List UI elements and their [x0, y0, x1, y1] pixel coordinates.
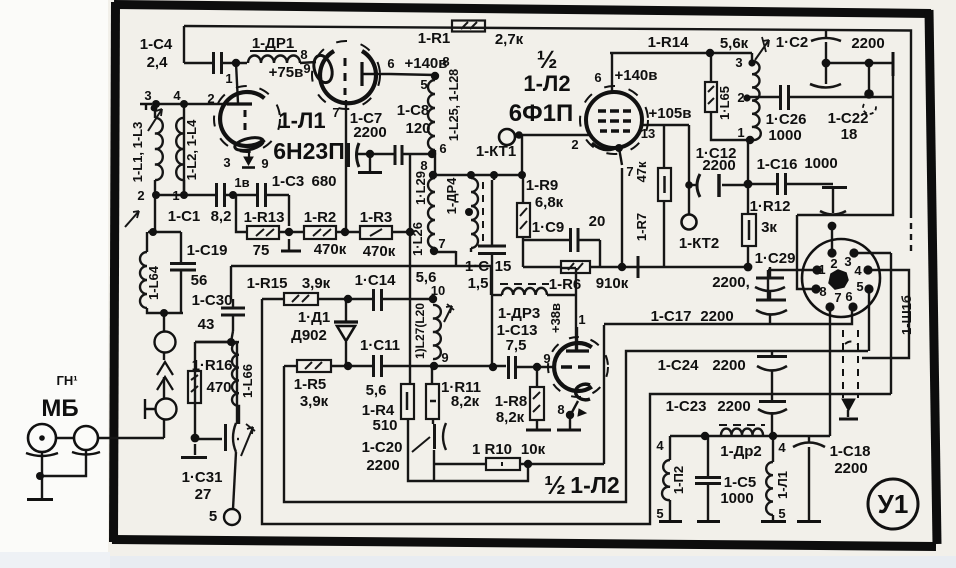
- svg-text:Д902: Д902: [291, 327, 327, 344]
- svg-text:2,7к: 2,7к: [495, 31, 524, 48]
- svg-text:1-R8: 1-R8: [495, 393, 528, 410]
- svg-text:1,5: 1,5: [468, 275, 489, 292]
- svg-text:3к: 3к: [761, 219, 777, 236]
- svg-text:10: 10: [431, 283, 445, 298]
- svg-text:2,4: 2,4: [147, 54, 169, 71]
- svg-text:75: 75: [253, 242, 270, 259]
- svg-text:1-Л1: 1-Л1: [775, 471, 790, 499]
- svg-text:½: ½: [544, 470, 566, 500]
- svg-text:+140в: +140в: [614, 67, 657, 84]
- svg-text:6,8к: 6,8к: [535, 194, 564, 211]
- svg-text:9: 9: [261, 156, 268, 171]
- svg-text:1·С26: 1·С26: [766, 111, 807, 128]
- svg-text:1-С30: 1-С30: [192, 292, 233, 309]
- svg-text:1·Д1: 1·Д1: [298, 309, 330, 326]
- svg-text:1·C: 1·C: [465, 258, 489, 275]
- svg-text:8: 8: [442, 54, 449, 69]
- svg-text:1-R14: 1-R14: [648, 34, 690, 51]
- svg-text:7: 7: [626, 164, 633, 179]
- svg-text:1·С31: 1·С31: [182, 469, 223, 486]
- svg-text:1-Л1: 1-Л1: [278, 108, 325, 133]
- svg-text:1·C11: 1·C11: [360, 337, 400, 354]
- svg-text:5: 5: [778, 506, 785, 521]
- svg-text:1·C14: 1·C14: [355, 272, 397, 289]
- svg-text:ГН¹: ГН¹: [56, 373, 77, 388]
- svg-text:½: ½: [537, 46, 558, 74]
- svg-text:56: 56: [191, 272, 208, 289]
- svg-text:1: 1: [578, 312, 585, 327]
- svg-text:1-C8: 1-C8: [397, 102, 430, 119]
- svg-text:43: 43: [198, 316, 215, 333]
- svg-text:2200,: 2200,: [712, 274, 750, 291]
- svg-text:1-L66: 1-L66: [240, 364, 255, 398]
- svg-text:6: 6: [594, 70, 601, 85]
- svg-text:1: 1: [225, 71, 232, 86]
- svg-text:1)L27(L20: 1)L27(L20: [413, 303, 427, 359]
- svg-text:3,9к: 3,9к: [300, 393, 329, 410]
- svg-text:1-С3: 1-С3: [272, 173, 305, 190]
- svg-text:5,6: 5,6: [366, 382, 387, 399]
- svg-text:1: 1: [172, 188, 179, 203]
- svg-text:1-Др2: 1-Др2: [720, 443, 762, 460]
- svg-text:1-ДР3: 1-ДР3: [498, 305, 540, 322]
- svg-text:6Н23П: 6Н23П: [273, 138, 345, 164]
- svg-text:6: 6: [439, 141, 446, 156]
- svg-text:1-КТ1: 1-КТ1: [476, 143, 516, 160]
- svg-text:1-R13: 1-R13: [244, 209, 285, 226]
- svg-text:470к: 470к: [314, 241, 347, 258]
- svg-text:1-L1, 1-L3: 1-L1, 1-L3: [130, 122, 145, 183]
- svg-text:2200: 2200: [834, 460, 867, 477]
- svg-text:1: 1: [818, 262, 825, 277]
- svg-text:2200: 2200: [700, 308, 733, 325]
- svg-text:2: 2: [737, 90, 744, 105]
- svg-text:1-R15: 1-R15: [247, 275, 288, 292]
- svg-text:4: 4: [173, 88, 181, 103]
- svg-text:1-L64: 1-L64: [146, 265, 161, 300]
- svg-text:4: 4: [778, 440, 786, 455]
- svg-text:1-C1: 1-C1: [168, 208, 201, 225]
- svg-text:1-R7: 1-R7: [634, 213, 649, 241]
- svg-text:1000: 1000: [720, 490, 753, 507]
- svg-text:1-R1: 1-R1: [418, 30, 451, 47]
- svg-text:8: 8: [819, 284, 826, 299]
- svg-text:9: 9: [543, 351, 550, 366]
- svg-text:1-R9: 1-R9: [526, 177, 559, 194]
- svg-text:8: 8: [300, 47, 307, 62]
- svg-text:8,2к: 8,2к: [496, 409, 525, 426]
- svg-text:1: 1: [737, 125, 744, 140]
- svg-text:8,2: 8,2: [211, 208, 232, 225]
- svg-text:1-С16: 1-С16: [757, 156, 798, 173]
- svg-text:5: 5: [656, 506, 663, 521]
- svg-text:20: 20: [589, 213, 606, 230]
- svg-text:1-R5: 1-R5: [294, 376, 327, 393]
- svg-text:6: 6: [845, 289, 852, 304]
- svg-text:18: 18: [841, 126, 858, 143]
- svg-text:1-R2: 1-R2: [304, 209, 337, 226]
- svg-text:910к: 910к: [596, 275, 629, 292]
- svg-text:5: 5: [420, 77, 427, 92]
- svg-text:9: 9: [303, 61, 310, 76]
- svg-text:6Ф1П: 6Ф1П: [509, 100, 573, 127]
- svg-text:1-С24: 1-С24: [658, 357, 700, 374]
- svg-text:1-L2, 1-L4: 1-L2, 1-L4: [184, 119, 199, 180]
- svg-text:3,9к: 3,9к: [302, 275, 331, 292]
- svg-text:7: 7: [834, 290, 841, 305]
- svg-text:МБ: МБ: [41, 395, 78, 422]
- svg-text:120: 120: [405, 120, 430, 137]
- svg-text:1-R6: 1-R6: [549, 276, 582, 293]
- svg-text:8: 8: [420, 158, 427, 173]
- svg-text:1-С22: 1-С22: [828, 110, 869, 127]
- svg-text:13: 13: [641, 126, 655, 141]
- svg-text:1-ДР1: 1-ДР1: [252, 35, 294, 52]
- svg-text:1·C9: 1·C9: [532, 219, 565, 236]
- svg-text:1-С23: 1-С23: [666, 398, 707, 415]
- svg-text:2200: 2200: [717, 398, 750, 415]
- svg-text:3: 3: [223, 155, 230, 170]
- svg-text:1-ДР4: 1-ДР4: [444, 177, 459, 214]
- svg-text:4: 4: [854, 263, 862, 278]
- svg-text:27: 27: [195, 486, 212, 503]
- svg-text:3: 3: [844, 254, 851, 269]
- svg-text:2200: 2200: [712, 357, 745, 374]
- svg-text:1·C2: 1·C2: [776, 34, 809, 51]
- svg-text:8: 8: [557, 402, 564, 417]
- svg-text:1-R3: 1-R3: [360, 209, 393, 226]
- svg-text:1-C20: 1-C20: [362, 439, 403, 456]
- svg-text:10к: 10к: [521, 441, 546, 458]
- svg-text:15: 15: [495, 258, 512, 275]
- svg-text:1 R10: 1 R10: [472, 441, 512, 458]
- svg-text:5: 5: [856, 279, 863, 294]
- svg-text:1-С5: 1-С5: [724, 474, 757, 491]
- svg-text:4: 4: [656, 438, 664, 453]
- svg-text:680: 680: [311, 173, 336, 190]
- svg-text:2: 2: [830, 256, 837, 271]
- svg-text:1-С18: 1-С18: [830, 443, 871, 460]
- svg-text:5,6к: 5,6к: [720, 35, 749, 52]
- svg-text:1·L29: 1·L29: [413, 171, 428, 205]
- svg-text:+140в: +140в: [404, 55, 447, 72]
- svg-text:1·R16: 1·R16: [192, 357, 233, 374]
- svg-text:510: 510: [372, 417, 397, 434]
- svg-text:3: 3: [144, 88, 151, 103]
- svg-text:7: 7: [332, 105, 339, 120]
- svg-text:2200: 2200: [702, 157, 735, 174]
- svg-text:2200: 2200: [851, 35, 884, 52]
- svg-text:У1: У1: [878, 489, 909, 519]
- svg-text:2200: 2200: [366, 457, 399, 474]
- svg-text:+38в: +38в: [548, 303, 563, 333]
- svg-text:1в: 1в: [234, 175, 249, 190]
- svg-text:1000: 1000: [804, 155, 837, 172]
- svg-text:1·С29: 1·С29: [755, 250, 796, 267]
- svg-text:1·L26: 1·L26: [410, 222, 425, 256]
- svg-text:1-L25, 1-L28: 1-L25, 1-L28: [447, 69, 461, 141]
- svg-text:7: 7: [438, 236, 445, 251]
- svg-text:1-C4: 1-C4: [140, 36, 173, 53]
- svg-text:1-КТ2: 1-КТ2: [679, 235, 719, 252]
- svg-text:1·R12: 1·R12: [750, 198, 791, 215]
- svg-text:+75в: +75в: [269, 64, 304, 81]
- svg-text:6: 6: [387, 56, 394, 71]
- svg-text:1000: 1000: [768, 127, 801, 144]
- svg-text:8,2к: 8,2к: [451, 393, 480, 410]
- svg-text:1-С19: 1-С19: [187, 242, 228, 259]
- svg-text:3: 3: [735, 55, 742, 70]
- svg-text:2: 2: [571, 137, 578, 152]
- svg-text:2200: 2200: [353, 124, 386, 141]
- svg-text:47к: 47к: [634, 161, 649, 182]
- svg-text:1-Ш1б: 1-Ш1б: [899, 295, 914, 335]
- svg-text:+105в: +105в: [648, 105, 691, 122]
- svg-text:470: 470: [206, 379, 231, 396]
- svg-text:1·L65: 1·L65: [717, 86, 732, 120]
- svg-text:7,5: 7,5: [506, 337, 527, 354]
- svg-text:1-П2: 1-П2: [671, 466, 686, 494]
- svg-text:1-С17: 1-С17: [651, 308, 692, 325]
- svg-text:1-Л2: 1-Л2: [523, 71, 570, 96]
- svg-text:2: 2: [137, 188, 144, 203]
- svg-text:470к: 470к: [363, 243, 396, 260]
- svg-text:9: 9: [441, 350, 448, 365]
- svg-text:1-Л2: 1-Л2: [570, 472, 619, 498]
- svg-text:5: 5: [209, 508, 217, 525]
- svg-text:2: 2: [207, 91, 214, 106]
